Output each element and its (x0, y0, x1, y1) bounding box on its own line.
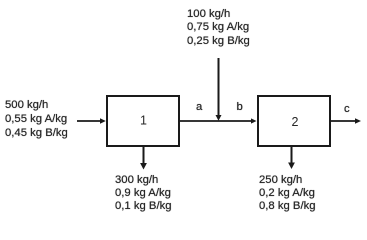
stream label: unit 2 bottoms (250 kg/h, 0,2 kg A/kg, 0,8 kg B/kg) (259, 174, 316, 214)
wire: unit 2 outlet arrow (stream c) (330, 118, 361, 123)
svg-text:2: 2 (292, 115, 299, 129)
wire: unit 1 to unit 2 connector with arrowhead (180, 118, 257, 123)
svg-text:1: 1 (140, 114, 147, 128)
node c label (344, 103, 350, 115)
node a label (196, 101, 202, 113)
unit 2 box (258, 96, 330, 146)
wire: unit 2 bottoms arrow down (288, 147, 295, 169)
unit 1 box (107, 96, 179, 146)
wire: top feed arrow down to node between a and b (216, 58, 222, 121)
stream label: top feed (100 kg/h, 0,75 kg A/kg, 0,25 kg B/kg) (187, 8, 250, 48)
node b label (237, 101, 243, 113)
stream label: left feed (500 kg/h, 0,55 kg A/kg, 0,45 kg B/kg) (5, 98, 68, 140)
stream label: unit 1 bottoms (300 kg/h, 0,9 kg A/kg, 0,1 kg B/kg) (115, 174, 172, 214)
wire: unit 1 bottoms arrow down (140, 147, 147, 170)
wire: left feed arrow into unit 1 (77, 118, 106, 123)
